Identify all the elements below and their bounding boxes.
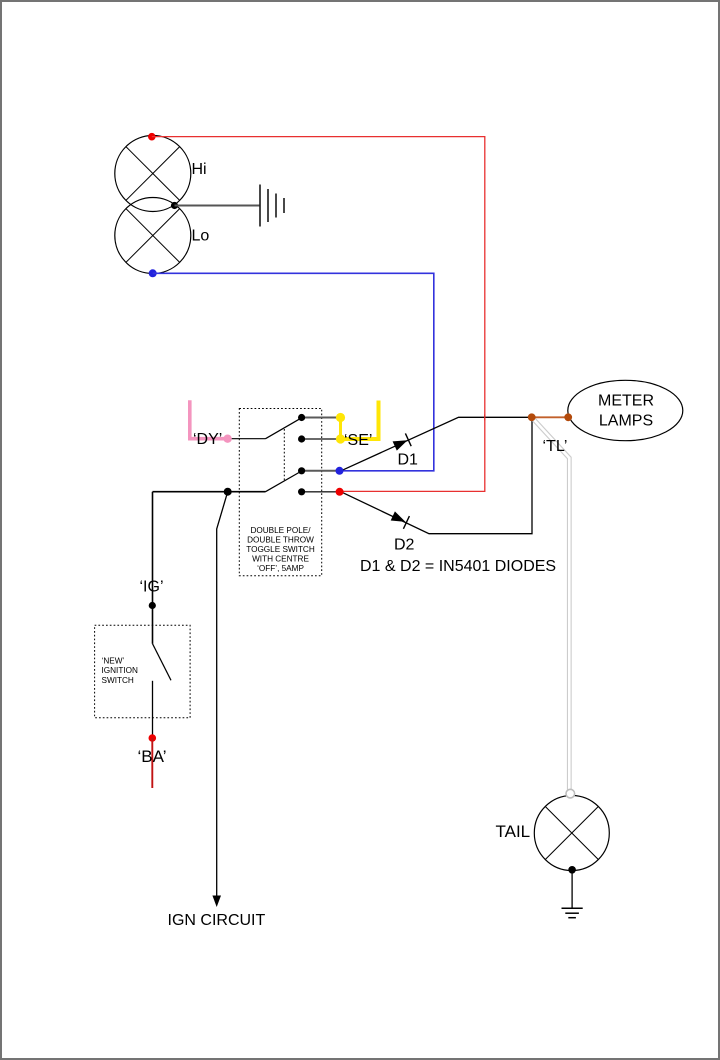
svg-text:TAIL: TAIL [496,822,531,841]
svg-text:METER: METER [598,393,654,410]
svg-text:Hi: Hi [192,161,207,178]
node SE lower (yellow) [336,434,345,443]
lamp Hi [115,136,191,212]
wire IGN circuit branch [217,492,228,897]
node blue contact3 [336,467,344,475]
svg-text:IGN CIRCUIT: IGN CIRCUIT [168,912,266,929]
contact 2 [298,435,305,442]
ground (tail lamp) [562,908,583,918]
wire contact3 lead [302,470,340,472]
svg-text:D1: D1 [398,452,419,469]
wire contact1 lead [302,417,341,419]
wire blue (Lo lamp to switch contact 3) [153,273,434,471]
ground (headlamp common) [260,185,284,227]
diode D2 bar [403,516,409,529]
wire lamp common to ground [175,205,260,207]
wire pole1 lead [228,438,266,440]
node TL right (brown) [564,413,572,421]
wire red (Hi lamp to switch contact 4) [152,137,485,492]
DPDT switch dashed enclosure [239,409,321,576]
arrowhead IGN circuit [212,896,221,908]
diode D1 wire [341,417,532,471]
node lamp common junction [171,202,178,209]
wire pole2 lead [228,491,266,493]
node tail bottom [568,866,576,874]
node red (top of Hi lamp) [148,133,156,141]
diode D2 wire [341,417,532,533]
svg-text:‘SE’: ‘SE’ [344,432,372,449]
diode D1 arrow [393,440,408,450]
node blue (bottom of Lo lamp) [149,269,157,277]
wire tail feed (double grey) [532,417,570,789]
svg-text:LAMPS: LAMPS [599,413,653,430]
svg-text:‘DY’: ‘DY’ [193,431,222,448]
wire red crossing over D1 wire [484,415,486,421]
switch lever pole1 [266,418,302,439]
svg-text:D1 & D2 = IN5401 DIODES: D1 & D2 = IN5401 DIODES [360,558,556,575]
node DY (pink) [223,435,231,443]
node BA (red) [149,734,157,742]
svg-text:‘NEW’: ‘NEW’ [102,657,125,666]
meter lamps ellipse [568,380,683,440]
label METER LAMPS [598,393,654,430]
contact 3 [298,467,305,474]
node red contact4 [336,488,344,496]
svg-text:IGNITION: IGNITION [102,666,138,675]
svg-text:‘BA’: ‘BA’ [138,747,167,766]
wire TL brown [532,416,569,418]
wire IG vertical [152,492,154,644]
lamp TAIL [534,796,609,871]
diode D2 arrow [391,511,406,522]
node TL left (brown) [528,413,536,421]
wire pole2 to IG line [153,491,228,493]
svg-text:DOUBLE THROW: DOUBLE THROW [247,536,314,545]
contact 1 [298,414,305,421]
contact 4 [298,488,305,495]
ignition switch dashed enclosure [95,625,191,718]
svg-text:‘OFF’, 5AMP: ‘OFF’, 5AMP [257,564,304,573]
gang link dashed [283,429,285,481]
connector tail lamp (open circle) [566,789,575,798]
svg-text:D2: D2 [394,537,415,554]
wire contact4 lead [302,491,340,493]
wire tail to ground [571,870,573,908]
wire BA stub (red) [151,738,153,788]
svg-text:SWITCH: SWITCH [102,676,134,685]
lamp Lo [115,198,191,274]
wire yellow SE [341,401,379,440]
svg-text:‘IG’: ‘IG’ [140,579,164,596]
node pole2 [224,488,232,496]
node IG [149,602,156,609]
ignition caption [102,657,138,686]
node SE upper (yellow) [336,413,345,422]
svg-text:DOUBLE POLE/: DOUBLE POLE/ [250,526,311,535]
wire ignition lower lead [152,681,154,738]
switch lever pole2 [266,471,302,492]
diode D1 bar [405,433,411,446]
svg-text:Lo: Lo [192,228,210,245]
switch lever ignition [153,644,172,681]
DPDT caption [246,526,315,573]
svg-text:TOGGLE SWITCH: TOGGLE SWITCH [246,545,315,554]
svg-text:‘TL’: ‘TL’ [543,438,568,455]
svg-text:WITH CENTRE: WITH CENTRE [252,555,309,564]
wire pink DY [190,400,228,438]
wire contact2 lead [302,438,341,440]
